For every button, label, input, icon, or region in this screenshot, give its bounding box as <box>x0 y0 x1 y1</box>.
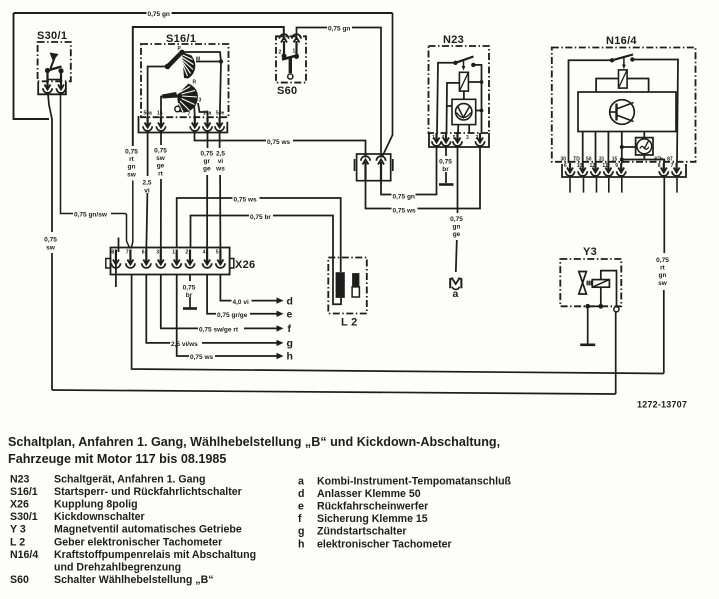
svg-text:sw: sw <box>46 245 56 252</box>
svg-text:e: e <box>287 309 293 321</box>
wire 0,75 gn top bus from S30/1 area to 2-pin connector X <box>14 13 393 156</box>
svg-text:3: 3 <box>156 250 159 256</box>
svg-text:7: 7 <box>671 163 674 169</box>
wire 0,75 sw S30/1 left pin down left side <box>48 94 52 390</box>
svg-text:vi: vi <box>144 188 150 195</box>
N23 speed logic block <box>452 99 476 124</box>
svg-text:0,75 ws: 0,75 ws <box>267 139 291 146</box>
svg-text:R: R <box>193 80 197 86</box>
label 0,75 gn <box>392 192 416 201</box>
wire bottom bus S30/1 0,75 sw to Y3 right pin <box>52 311 616 394</box>
svg-text:Sicherung Klemme 15: Sicherung Klemme 15 <box>317 513 428 525</box>
svg-text:Y3: Y3 <box>583 246 597 258</box>
svg-text:a: a <box>453 288 459 300</box>
N16/4 pin row 30 TD 50 31 15 87h 87 <box>561 157 687 178</box>
svg-text:8: 8 <box>111 250 114 256</box>
relay N23 Schaltgeraet Anfahren 1. Gang <box>429 34 490 133</box>
svg-text:Schalter Wählhebelstellung „B“: Schalter Wählhebelstellung „B“ <box>54 574 214 586</box>
label 0,75 sw <box>44 237 57 252</box>
svg-text:d: d <box>287 296 293 308</box>
svg-text:0,75: 0,75 <box>125 149 138 156</box>
S16/1 upper rotary contact (Waehlhebel gate P/M) <box>148 46 224 117</box>
label 0,75 gr ge <box>200 151 213 173</box>
svg-text:Anlasser Klemme 50: Anlasser Klemme 50 <box>317 488 421 500</box>
svg-text:Schaltplan, Anfahren 1. Gang,: Schaltplan, Anfahren 1. Gang, Wählhebels… <box>8 435 500 449</box>
svg-text:50e: 50e <box>216 111 225 117</box>
svg-text:Kombi-Instrument-Tempomatansch: Kombi-Instrument-Tempomatanschluß <box>317 476 512 488</box>
svg-text:a: a <box>298 476 304 488</box>
wire 0,75 ws S16/1 pin7 to 2-pin connector X <box>195 132 366 158</box>
svg-text:sw: sw <box>658 280 668 287</box>
caption title <box>8 435 500 466</box>
svg-text:0,75: 0,75 <box>439 159 452 166</box>
label 0,75 ws <box>266 138 293 147</box>
node g arrow <box>170 337 293 349</box>
svg-text:elektronischer Tachometer: elektronischer Tachometer <box>317 538 452 550</box>
N16/4 relay contact <box>610 55 635 70</box>
wire S16/1 15 to X26 pin3 (0,75 sw ge rt) <box>160 131 162 252</box>
connector X26 Kupplung 8polig <box>106 248 256 275</box>
svg-text:h: h <box>298 538 304 550</box>
svg-text:87: 87 <box>667 157 673 163</box>
svg-text:Zündstartschalter: Zündstartschalter <box>317 526 406 538</box>
svg-text:7: 7 <box>188 112 191 118</box>
svg-text:Rückfahrscheinwerfer: Rückfahrscheinwerfer <box>317 501 428 513</box>
svg-text:1: 1 <box>432 135 435 141</box>
svg-text:gn: gn <box>659 272 667 279</box>
node d arrow <box>232 296 293 308</box>
wire 0,75 ws X26 pin1 to L2 <box>177 198 341 258</box>
Y3 valve body <box>579 272 593 295</box>
svg-text:rt: rt <box>129 156 135 163</box>
switch S30/1 kickdown <box>37 30 71 94</box>
svg-text:9: 9 <box>615 163 618 169</box>
wire X26 pin8 stubs <box>116 238 119 288</box>
socket a (Kombi-Instrument Tempomatanschluss) <box>450 278 461 300</box>
svg-text:gn: gn <box>453 224 461 231</box>
label 0,75 ws <box>233 195 260 204</box>
wire N23 pin5 to socket a (0,75 gn ge) <box>450 147 463 272</box>
svg-text:Fahrzeuge mit Motor 117 bis 08: Fahrzeuge mit Motor 117 bis 08.1985 <box>8 452 226 466</box>
wire 0,75 gn/sw S30/1 to X26 pin7 <box>61 94 130 249</box>
Y3 solenoid <box>592 280 609 288</box>
label 0,75 br <box>249 213 273 222</box>
svg-text:0,75: 0,75 <box>154 148 167 155</box>
svg-text:L 2: L 2 <box>10 536 25 548</box>
svg-text:10: 10 <box>577 163 583 169</box>
svg-text:2,5: 2,5 <box>216 151 225 158</box>
N16/4 electronic block with transistor <box>578 92 676 132</box>
svg-text:2: 2 <box>476 135 479 141</box>
svg-text:15a: 15a <box>203 111 212 117</box>
svg-text:31: 31 <box>599 157 605 163</box>
node f arrow <box>198 323 292 335</box>
svg-text:TD: TD <box>573 157 580 163</box>
svg-text:5: 5 <box>453 135 456 141</box>
svg-text:0,75 gr/ge: 0,75 gr/ge <box>217 312 248 319</box>
svg-text:Kickdownschalter: Kickdownschalter <box>54 511 145 523</box>
svg-text:0,75 sw/ge rt: 0,75 sw/ge rt <box>199 327 239 334</box>
svg-text:S30/1: S30/1 <box>10 511 38 523</box>
svg-text:N16/4: N16/4 <box>606 35 637 47</box>
svg-text:L 2: L 2 <box>341 317 358 329</box>
svg-text:3: 3 <box>466 135 469 141</box>
svg-text:0,75: 0,75 <box>183 285 196 292</box>
S16/1 bottom connector frame and pins 50a 15 7 15a 50e <box>139 111 228 133</box>
svg-text:3: 3 <box>199 98 202 104</box>
label 2,5 vi <box>142 180 151 195</box>
svg-text:rt: rt <box>660 265 666 272</box>
svg-text:ws: ws <box>215 166 225 173</box>
svg-text:sw: sw <box>156 155 166 162</box>
switch S16/1 Startsperr- und Rueckfahrlichtschalter <box>141 33 229 117</box>
node e arrow <box>216 309 293 321</box>
svg-text:15: 15 <box>157 111 163 117</box>
svg-text:0,75 gn: 0,75 gn <box>393 194 415 201</box>
drawing number 1272-13707 <box>637 400 687 410</box>
svg-text:1272-13707: 1272-13707 <box>637 400 687 410</box>
wire X26 pin3 to arrow f (0,75 sw/ge rt) <box>161 275 278 328</box>
valve Y3 Magnetventil automatisches Getriebe <box>560 246 621 306</box>
label 0,75 gn/sw <box>73 210 111 219</box>
svg-text:0,75 ws: 0,75 ws <box>393 208 417 215</box>
svg-text:1: 1 <box>172 250 175 256</box>
wire S16/1 15a to X26 pin4 (0,75 gr ge) <box>206 131 208 252</box>
label 0,75 sw ge rt <box>154 148 167 178</box>
legend right column <box>298 476 512 551</box>
label 0,75 gn on S60 branch <box>327 24 352 33</box>
wire 0,75 br X26 pin2 to L2 <box>191 216 334 259</box>
svg-text:50a: 50a <box>144 111 153 117</box>
wire X26 pin7 to N16/4 pin 87h (0,75 rt gn sw) <box>132 178 665 374</box>
svg-text:0,75: 0,75 <box>656 257 669 264</box>
N16/4 internal wiring <box>569 60 679 164</box>
svg-text:0,75: 0,75 <box>450 216 463 223</box>
svg-text:5: 5 <box>216 250 219 256</box>
svg-text:2: 2 <box>186 250 189 256</box>
svg-text:Geber elektronischer Tachomete: Geber elektronischer Tachometer <box>54 536 222 548</box>
svg-text:d: d <box>298 488 304 500</box>
switch S60 Waehlhebelstellung B <box>276 34 306 97</box>
svg-text:rt: rt <box>158 170 164 177</box>
svg-text:Magnetventil automatisches Get: Magnetventil automatisches Getriebe <box>54 524 242 536</box>
svg-text:vi: vi <box>218 158 224 165</box>
svg-text:1: 1 <box>293 49 296 55</box>
svg-text:0,75 gn/sw: 0,75 gn/sw <box>74 212 108 219</box>
relay N16/4 Kraftstoffpumpenrelais <box>552 35 696 162</box>
svg-text:sw: sw <box>127 171 137 178</box>
svg-text:N23: N23 <box>443 34 464 46</box>
svg-text:6: 6 <box>142 250 145 256</box>
svg-text:ge: ge <box>203 166 211 173</box>
svg-text:Kraftstoffpumpenrelais mit Abs: Kraftstoffpumpenrelais mit Abschaltung <box>54 549 256 561</box>
svg-text:0,75: 0,75 <box>200 151 213 158</box>
Y3 ground <box>580 309 595 345</box>
svg-text:6: 6 <box>564 163 567 169</box>
svg-text:S60: S60 <box>277 85 297 97</box>
wire N23 pin4 to ground (0,75 br) <box>439 147 454 185</box>
svg-text:N23: N23 <box>10 474 30 486</box>
label 0,75 ws <box>392 206 418 215</box>
N23 internal wiring <box>437 63 483 133</box>
svg-text:S16/1: S16/1 <box>10 486 38 498</box>
svg-text:8: 8 <box>658 163 661 169</box>
wire X26 pin5 to anlasser arrow d (4,0 vi) <box>220 275 278 301</box>
svg-text:0,75 ws: 0,75 ws <box>234 197 258 204</box>
svg-text:und Drehzahlbegrenzung: und Drehzahlbegrenzung <box>54 561 181 573</box>
N23 coil <box>459 72 468 91</box>
svg-text:11: 11 <box>602 163 608 169</box>
legend left column <box>10 474 256 586</box>
svg-text:gr: gr <box>204 158 211 165</box>
svg-text:50: 50 <box>586 157 592 163</box>
wire S16/1 50e to X26 pin5 (2,5 vi ws) <box>219 131 222 252</box>
S16/1 lower rotary contact (R gate) <box>161 80 208 118</box>
wire 0,75 gn connector X to N23 pin1 <box>381 147 437 195</box>
svg-text:h: h <box>287 351 293 363</box>
svg-text:ge: ge <box>453 231 461 238</box>
svg-text:X26: X26 <box>235 259 255 271</box>
svg-text:12: 12 <box>590 163 596 169</box>
wire X26 pin2 to ground below <box>183 275 197 309</box>
svg-text:0,75 br: 0,75 br <box>250 214 271 221</box>
svg-text:e: e <box>298 501 304 513</box>
N23 pin row 1 4 5 3 2 <box>429 133 489 147</box>
svg-text:Y 3: Y 3 <box>10 524 26 536</box>
svg-text:Kupplung 8polig: Kupplung 8polig <box>54 499 138 511</box>
svg-text:Startsperr- und Rückfahrlichts: Startsperr- und Rückfahrlichtschalter <box>54 486 242 498</box>
wire S16/1 left 0,75 rt gn sw label segment <box>125 149 138 179</box>
wire 0,75 gn from S60 pin1 to 2-pin connector X <box>297 28 382 158</box>
wire X26 pin6 to arrow g (2,5 vi/ws) <box>146 275 278 343</box>
svg-text:4: 4 <box>203 250 206 256</box>
svg-text:ge: ge <box>157 163 165 170</box>
connector X 2-pin (S60/N23 coupler) <box>355 154 393 181</box>
svg-text:7: 7 <box>126 250 129 256</box>
svg-text:2,5 vi/ws: 2,5 vi/ws <box>171 341 198 348</box>
svg-text:15: 15 <box>612 157 618 163</box>
svg-text:2,5: 2,5 <box>142 180 151 187</box>
label 2,5 vi ws <box>215 151 225 173</box>
svg-text:X26: X26 <box>10 499 29 511</box>
svg-text:87h: 87h <box>654 157 663 163</box>
svg-text:S60: S60 <box>10 574 29 586</box>
svg-text:0,75: 0,75 <box>44 237 57 244</box>
svg-text:g: g <box>298 526 304 538</box>
N16/4 unused pin stubs below <box>570 178 677 193</box>
N23 relay contact <box>453 57 475 71</box>
wire 0,75 ws connector X to N23 pin2 <box>366 147 481 209</box>
svg-text:0,75 gn: 0,75 gn <box>148 11 170 18</box>
label 0,75 gn on top bus <box>147 10 172 19</box>
svg-text:4: 4 <box>442 135 445 141</box>
svg-text:30: 30 <box>561 157 567 163</box>
wire X26 pin1 to arrow h (0,75 ws) <box>177 275 278 356</box>
svg-text:f: f <box>288 323 292 335</box>
svg-text:4,0 vi: 4,0 vi <box>233 299 249 306</box>
svg-text:g: g <box>287 337 293 349</box>
wire S16/1 50a to X26 pin6 (2,5 vi) <box>146 131 147 252</box>
svg-text:S30/1: S30/1 <box>37 30 67 42</box>
svg-text:N16/4: N16/4 <box>10 549 38 561</box>
N16/4 gauge block <box>636 138 653 155</box>
node h arrow <box>189 351 293 363</box>
svg-text:0,75 gn: 0,75 gn <box>328 26 350 33</box>
Y3 internal wiring and pins <box>585 271 619 312</box>
svg-text:Schaltgerät, Anfahren 1. Gang: Schaltgerät, Anfahren 1. Gang <box>54 474 205 486</box>
sensor L2 Geber elektronischer Tachometer <box>328 258 367 329</box>
wire X26 pin4 to arrow e (0,75 gr/ge) <box>207 275 278 314</box>
wire S16/1 frame loop to S60 (top edge) <box>133 27 284 146</box>
N16/4 coil <box>619 70 628 88</box>
svg-text:gn: gn <box>128 164 136 171</box>
label 0,75 rt gn sw (right) <box>656 257 669 287</box>
svg-text:f: f <box>298 513 302 525</box>
svg-text:0,75 ws: 0,75 ws <box>190 354 214 361</box>
svg-text:2: 2 <box>279 50 282 56</box>
